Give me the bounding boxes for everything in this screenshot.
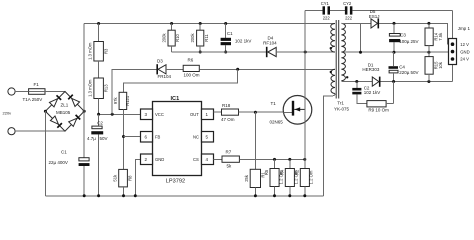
- svg-text:R4: R4: [280, 169, 285, 175]
- wire OUT to R18: [214, 111, 222, 113]
- svg-text:HER303: HER303: [362, 67, 380, 72]
- svg-text:47 Om: 47 Om: [221, 117, 235, 122]
- pin 1 OUT: [202, 109, 214, 120]
- primary winding: [331, 24, 335, 53]
- node bridge plus: [83, 110, 86, 113]
- wire to connector low rail: [381, 65, 453, 82]
- node FB tap: [236, 68, 239, 71]
- capacitor CY2 222: [343, 1, 353, 21]
- capacitor C3 100u 25V: [389, 23, 418, 52]
- wire gate: [239, 111, 284, 113]
- resistor R15 10k: [425, 52, 443, 81]
- diode D3 FR104: [156, 59, 171, 79]
- wire R121 to R8 (FB node): [123, 110, 125, 170]
- svg-text:R18: R18: [222, 103, 231, 108]
- wire to primary bottom: [276, 51, 335, 53]
- wire: [15, 130, 65, 132]
- svg-text:OUT: OUT: [190, 112, 199, 117]
- svg-text:102 1kV: 102 1kV: [364, 90, 381, 95]
- svg-text:R2: R2: [295, 169, 300, 175]
- bridge rectifier ZL1 MB105: [44, 92, 86, 132]
- node gate: [254, 111, 257, 114]
- resistor R1 25k: [244, 169, 265, 197]
- svg-text:222: 222: [323, 15, 331, 20]
- resistor R10 200k (snubber): [162, 22, 181, 52]
- pin 4 CS: [202, 154, 214, 165]
- svg-text:Tr1: Tr1: [337, 100, 344, 105]
- svg-text:102 1kV: 102 1kV: [235, 39, 252, 44]
- wire CS sense rail: [239, 158, 304, 160]
- svg-text:200k: 200k: [190, 33, 195, 43]
- wire Y-cap rail: [305, 11, 452, 39]
- secondary winding: [341, 23, 345, 80]
- svg-text:222: 222: [345, 15, 353, 20]
- op-amp controller IC1 LP3792: [141, 96, 214, 185]
- svg-text:C3: C3: [400, 32, 406, 37]
- resistor R13 1.3 mOm: [88, 78, 109, 114]
- svg-text:1.3 mOm: 1.3 mOm: [88, 42, 93, 60]
- svg-text:4.7µ: 4.7µ: [87, 136, 96, 141]
- svg-text:C1: C1: [61, 150, 67, 155]
- svg-text:C1: C1: [227, 31, 233, 36]
- resistor R121 97k: [113, 92, 130, 109]
- svg-text:YK-075: YK-075: [334, 107, 350, 112]
- fuse F1: [23, 82, 46, 102]
- svg-text:5k: 5k: [227, 163, 233, 168]
- node: [111, 113, 114, 116]
- pin 3 VCC: [141, 109, 153, 120]
- node FB: [122, 135, 125, 138]
- resistor R4 1.2 Om: [280, 159, 299, 197]
- svg-text:Jmp 1: Jmp 1: [458, 26, 471, 31]
- diode D5 ES1J: [369, 9, 380, 28]
- svg-text:C4: C4: [399, 64, 405, 69]
- terminal J1 (line input): [8, 88, 15, 95]
- svg-text:CY2: CY2: [343, 1, 352, 6]
- node: [97, 113, 100, 116]
- diode lower-left arm: [50, 116, 58, 124]
- svg-text:24 V: 24 V: [460, 57, 469, 62]
- svg-text:R5: R5: [264, 169, 269, 175]
- svg-text:C2: C2: [97, 120, 103, 125]
- wire secondary top rail: [341, 22, 371, 24]
- resistor R2 1.2 Om: [295, 159, 314, 197]
- node bridge minus: [44, 110, 47, 113]
- svg-text:R7: R7: [226, 150, 232, 155]
- svg-text:CS: CS: [193, 157, 199, 162]
- svg-text:R6: R6: [188, 58, 194, 63]
- wire gate pulldown: [254, 112, 256, 169]
- diode upper-left arm: [49, 99, 57, 107]
- wire bridge minus drop: [44, 111, 46, 196]
- capacitor C4 220u 50V: [389, 52, 419, 81]
- pin 2 GND: [141, 154, 153, 165]
- resistor R11 200k (snubber): [190, 22, 209, 54]
- svg-text:GND: GND: [155, 157, 164, 162]
- svg-text:R13: R13: [104, 84, 109, 92]
- svg-text:R9 10 Om: R9 10 Om: [368, 108, 389, 113]
- svg-text:ES1J: ES1J: [369, 14, 380, 19]
- wire HV+ riser to top rail: [83, 24, 85, 112]
- wire common rail: [345, 51, 449, 53]
- svg-text:R11: R11: [204, 34, 209, 42]
- svg-text:1.3 mOm: 1.3 mOm: [88, 79, 93, 97]
- svg-text:NC: NC: [193, 135, 199, 140]
- svg-text:100µ 25V: 100µ 25V: [399, 39, 418, 44]
- svg-text:25k: 25k: [244, 174, 249, 182]
- resistor R5 1.2 Om: [264, 159, 283, 197]
- capacitor CY1 222: [321, 1, 331, 21]
- svg-text:CY1: CY1: [321, 1, 330, 6]
- wire snubber bottom: [172, 51, 266, 53]
- svg-text:220µ 50V: 220µ 50V: [399, 70, 418, 75]
- diode D1 HER303: [362, 62, 380, 86]
- svg-text:ZL1: ZL1: [61, 103, 69, 108]
- svg-text:D3: D3: [157, 59, 163, 64]
- svg-text:F1: F1: [34, 82, 40, 87]
- svg-text:22µ 400V: 22µ 400V: [49, 160, 68, 165]
- diode lower-right arm: [69, 118, 77, 126]
- svg-text:02N65: 02N65: [270, 120, 284, 125]
- svg-text:LP3792: LP3792: [166, 179, 185, 185]
- svg-text:51k: 51k: [112, 174, 117, 182]
- resistor R8 51k: [112, 169, 132, 197]
- svg-text:100 Om: 100 Om: [184, 73, 200, 78]
- pin 5 NC: [202, 132, 214, 143]
- wire aux bottom to bus: [324, 94, 336, 196]
- wire VCC rail: [99, 113, 141, 115]
- polarity dots: [330, 47, 332, 49]
- svg-text:VCC: VCC: [155, 112, 164, 117]
- wire: [45, 91, 66, 93]
- resistor R3 1.3 mOm: [88, 22, 109, 61]
- svg-text:220v: 220v: [3, 111, 12, 116]
- wire secondary bottom rail: [341, 80, 372, 83]
- wire drain/source line: [304, 11, 306, 160]
- wire 12V rail: [379, 23, 448, 44]
- capacitor C2 102 1kV (sec snubber): [352, 82, 380, 104]
- wire top rail: [84, 23, 335, 25]
- svg-text:R10: R10: [175, 33, 180, 41]
- wire aux to transformer: [199, 68, 335, 70]
- wire: [15, 91, 29, 93]
- svg-text:200k: 200k: [162, 33, 167, 43]
- svg-text:FB: FB: [155, 135, 161, 140]
- wire: [166, 68, 183, 70]
- svg-text:R121: R121: [125, 95, 130, 106]
- pin 6 FB: [141, 132, 153, 143]
- svg-text:97k: 97k: [113, 97, 118, 105]
- capacitor C1 22u 400V: [49, 111, 90, 197]
- svg-text:RF104: RF104: [263, 40, 277, 45]
- terminal J2 (neutral input): [8, 128, 15, 135]
- wire FB to pin 6: [124, 136, 141, 138]
- svg-text:T1: T1: [271, 101, 277, 106]
- transistor T1 02N65 (MOSFET): [270, 96, 312, 125]
- resistor R7 5k: [222, 150, 239, 169]
- svg-text:GND: GND: [460, 49, 469, 54]
- wire CS pin to R7: [214, 158, 223, 160]
- resistor R18 47 Om: [221, 103, 239, 122]
- wire ground bus: [45, 195, 323, 197]
- wire FB divider top: [124, 69, 238, 92]
- transformer Tr1 YK-075: [330, 20, 350, 112]
- svg-text:12 V: 12 V: [460, 42, 469, 47]
- svg-text:T1A 250V: T1A 250V: [23, 97, 43, 102]
- svg-text:10k: 10k: [438, 61, 443, 69]
- svg-text:R8: R8: [127, 175, 132, 181]
- resistor R14 7.5k: [425, 23, 443, 52]
- diode upper-right arm: [72, 98, 80, 106]
- capacitor C2 4.7u 50V: [87, 114, 108, 197]
- svg-text:7.5k: 7.5k: [438, 32, 443, 41]
- diode D4 RF104: [263, 36, 277, 58]
- wire sec winding top to common (bias): [360, 23, 362, 52]
- svg-text:1.2 Om: 1.2 Om: [309, 170, 314, 184]
- resistor R6 100 Om: [183, 58, 200, 78]
- resistor R9 10 Om: [367, 82, 394, 113]
- core: [336, 20, 339, 99]
- wire GND pin 2 to bus: [135, 159, 140, 196]
- wire aux winding rail: [112, 69, 156, 114]
- node drain: [304, 51, 307, 54]
- svg-text:R3: R3: [104, 48, 109, 54]
- connector Jmp 1: [449, 26, 471, 64]
- svg-text:MB105: MB105: [56, 110, 71, 115]
- aux winding: [331, 69, 335, 93]
- svg-text:FR104: FR104: [158, 74, 172, 79]
- svg-text:50V: 50V: [100, 136, 108, 141]
- wire: [98, 61, 100, 78]
- capacitor C1 102 1kV (snubber): [221, 22, 252, 54]
